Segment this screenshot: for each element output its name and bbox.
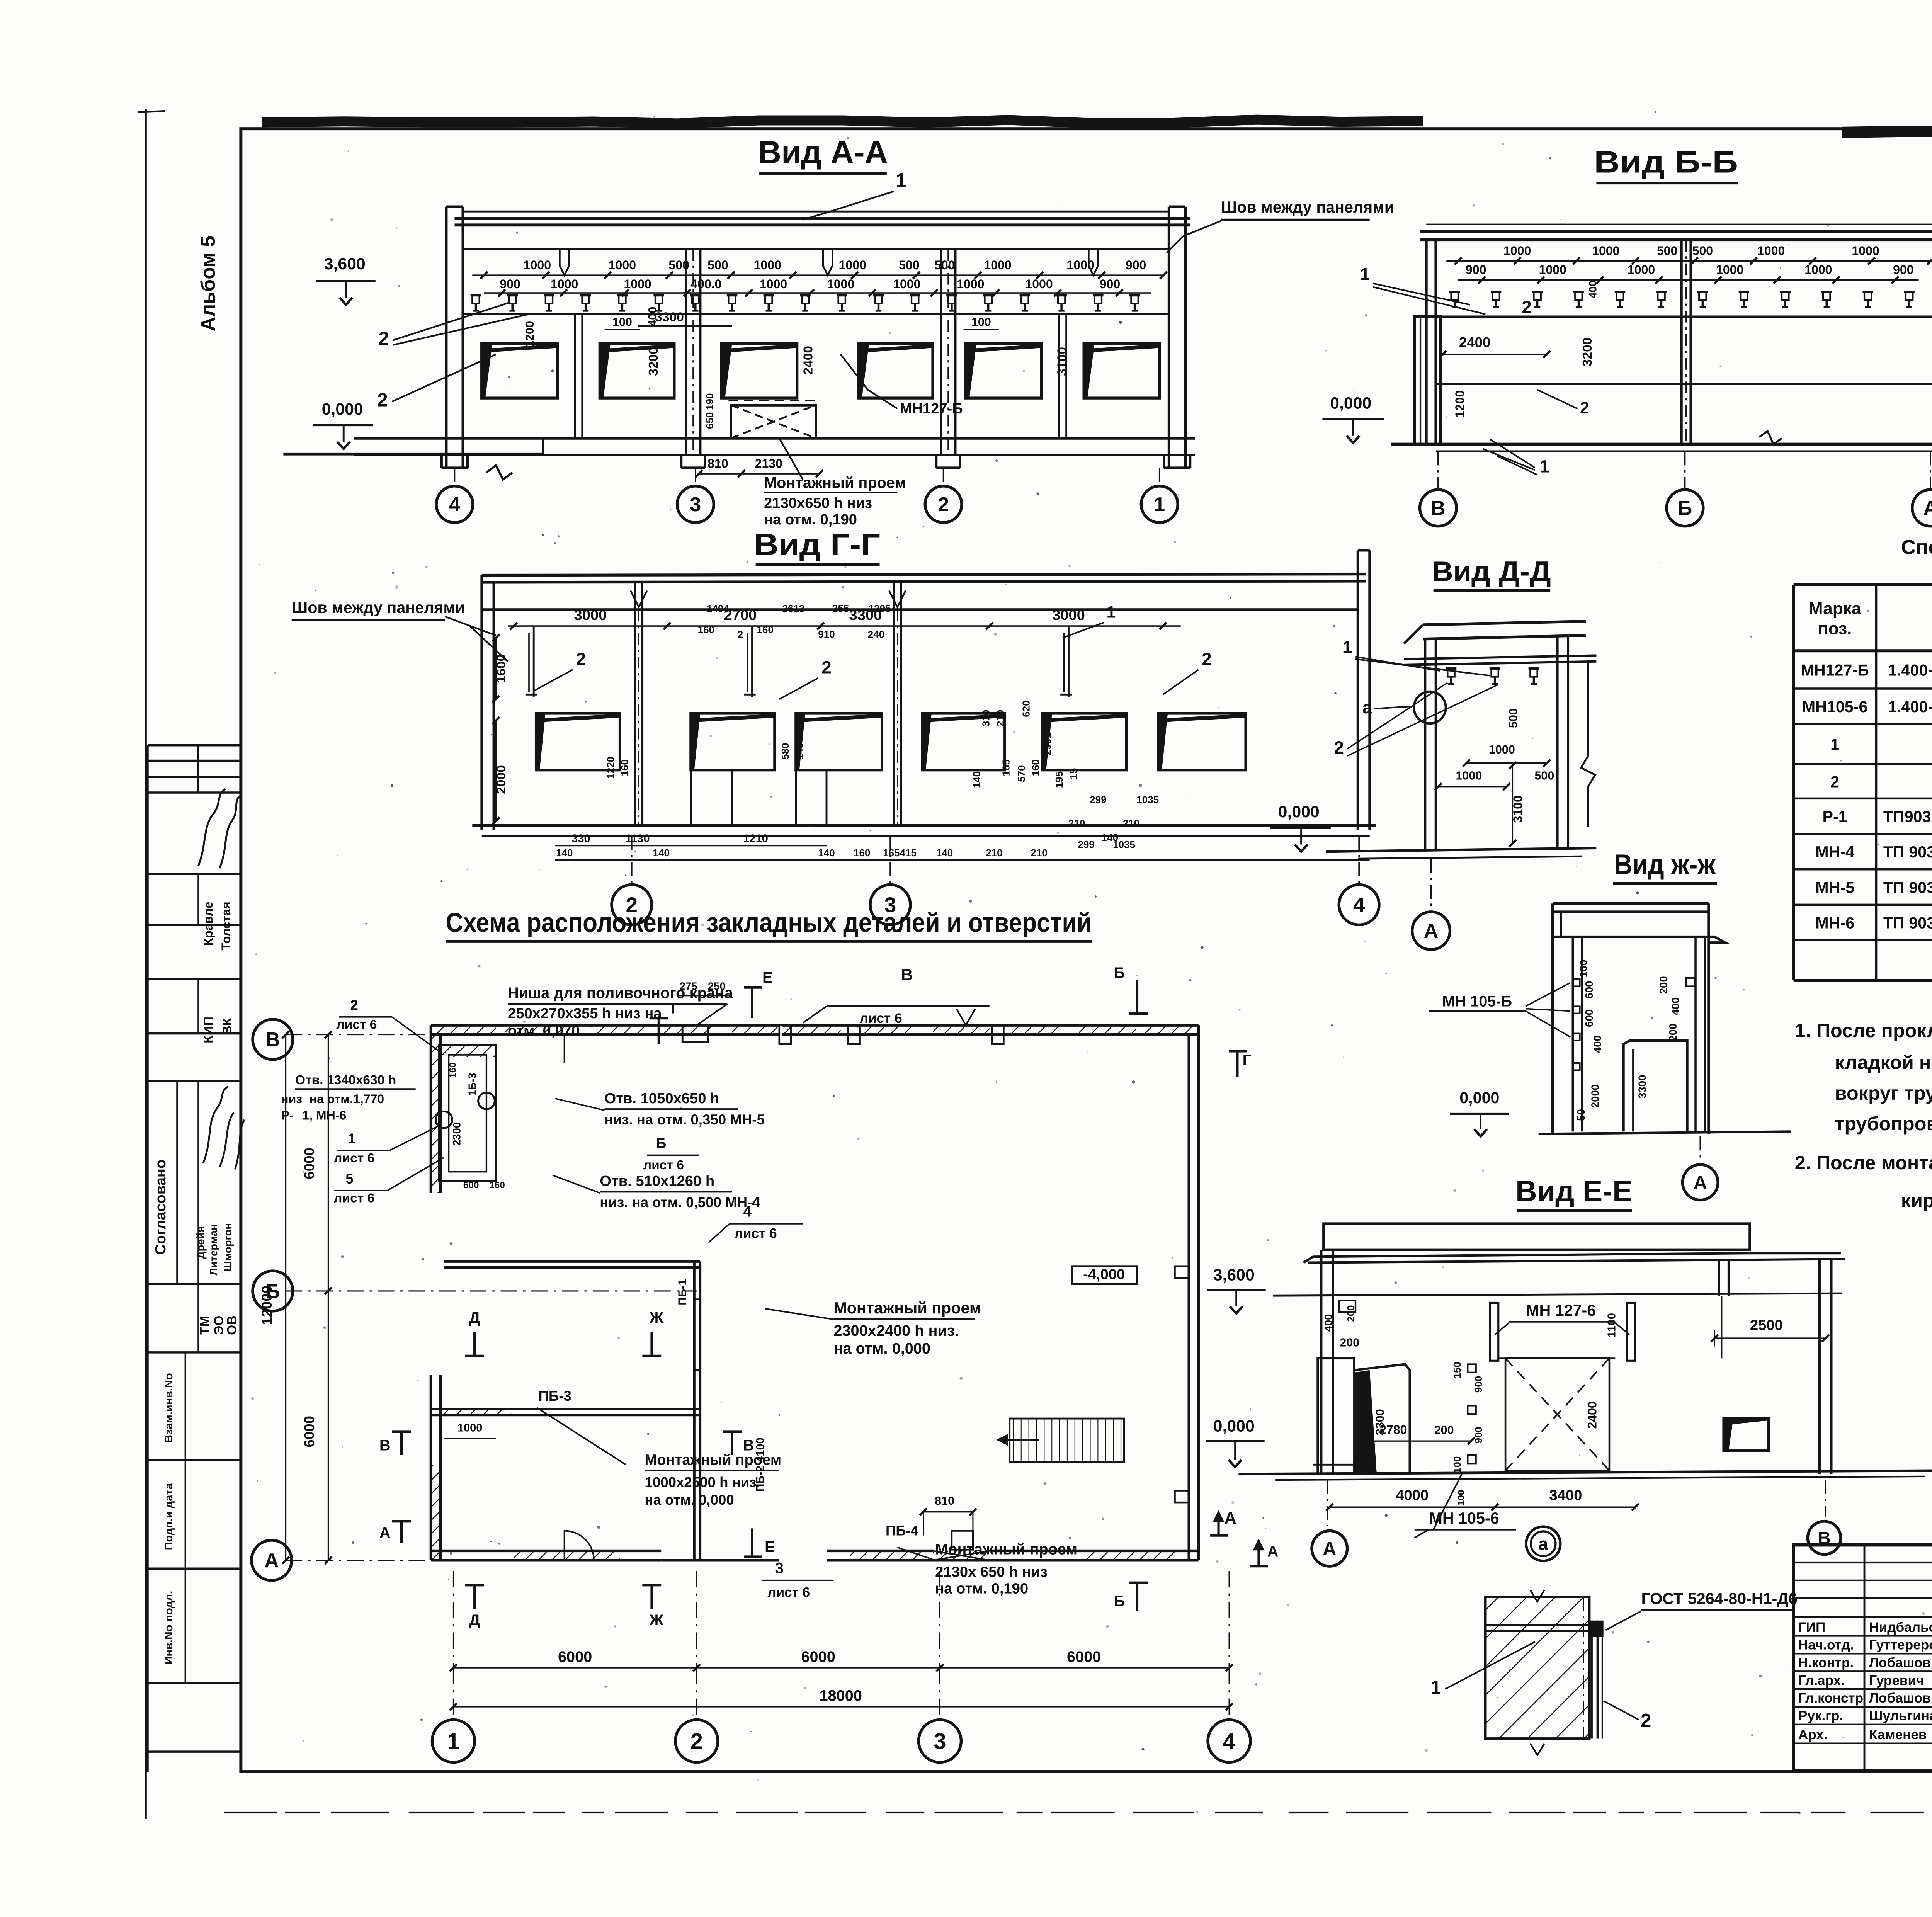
svg-text:отм. 0,070: отм. 0,070 [508, 1023, 580, 1039]
svg-text:100: 100 [1577, 960, 1589, 978]
svg-text:1000: 1000 [1852, 244, 1879, 258]
svg-text:ПБ-4: ПБ-4 [886, 1523, 919, 1539]
svg-text:195: 195 [1053, 771, 1065, 788]
svg-text:Дрейя: Дрейя [195, 1226, 207, 1259]
svg-text:1000: 1000 [760, 277, 787, 291]
svg-text:1: 1 [1830, 736, 1839, 754]
svg-text:2: 2 [379, 328, 389, 349]
svg-text:2: 2 [1580, 399, 1589, 417]
svg-text:600: 600 [463, 1180, 479, 1191]
svg-text:лист 6: лист 6 [334, 1151, 374, 1165]
svg-text:ПБ-2 4100: ПБ-2 4100 [754, 1437, 767, 1492]
svg-text:ТП 903-2-30.90: ТП 903-2-30.90 [1883, 879, 1932, 896]
svg-text:кладкой на глиняном раствор: кладкой на глиняном растворе. В пределах… [1835, 1051, 1932, 1073]
svg-text:2: 2 [738, 629, 743, 640]
svg-text:2130х 650 h низ: 2130х 650 h низ [935, 1564, 1048, 1580]
svg-text:МН127-Б: МН127-Б [1801, 661, 1869, 679]
svg-text:Р-: Р- [281, 1109, 293, 1123]
svg-text:на отм.1,770: на отм.1,770 [310, 1092, 384, 1106]
svg-text:2400: 2400 [801, 346, 815, 375]
svg-text:Отв. 510х1260 h: Отв. 510х1260 h [600, 1173, 714, 1189]
svg-text:1200: 1200 [1453, 390, 1467, 418]
svg-text:ПБ-1: ПБ-1 [676, 1279, 689, 1305]
svg-text:1404: 1404 [707, 602, 729, 614]
svg-text:Лобашов: Лобашов [1869, 1655, 1931, 1670]
svg-text:210: 210 [986, 847, 1002, 859]
svg-text:275: 275 [680, 980, 697, 992]
svg-text:900: 900 [1893, 263, 1914, 277]
svg-text:КИП: КИП [201, 1017, 216, 1043]
svg-text:лист 6: лист 6 [767, 1585, 810, 1600]
svg-text:1000: 1000 [609, 258, 636, 272]
svg-text:1000: 1000 [1489, 743, 1515, 756]
svg-text:на отм. 0,000: на отм. 0,000 [833, 1340, 930, 1357]
svg-text:1000: 1000 [1804, 263, 1832, 277]
svg-text:4: 4 [1353, 893, 1365, 917]
svg-text:Б: Б [1114, 1593, 1125, 1610]
svg-text:1000: 1000 [1592, 244, 1619, 258]
svg-text:600: 600 [1583, 1009, 1595, 1027]
svg-text:а: а [1538, 1534, 1548, 1554]
svg-text:500: 500 [899, 258, 920, 272]
svg-text:600: 600 [1583, 981, 1595, 999]
svg-text:Каменев: Каменев [1869, 1727, 1927, 1742]
svg-text:лист 6: лист 6 [735, 1226, 777, 1241]
svg-text:Спецификация элементов к марки: Спецификация элементов к маркировочным с… [1901, 536, 1932, 559]
svg-text:2000: 2000 [1589, 1084, 1601, 1108]
svg-text:Вид А-А: Вид А-А [758, 134, 888, 170]
svg-text:А: А [1267, 1543, 1279, 1560]
svg-text:1220: 1220 [605, 757, 616, 779]
svg-text:2: 2 [938, 493, 949, 516]
svg-text:50: 50 [1575, 1109, 1587, 1121]
svg-text:Б: Б [265, 1280, 280, 1303]
svg-text:900: 900 [1473, 1376, 1484, 1393]
svg-text:1, МН-6: 1, МН-6 [302, 1109, 346, 1123]
svg-text:400: 400 [1669, 997, 1681, 1015]
svg-text:3: 3 [690, 493, 701, 516]
svg-text:лист 6: лист 6 [334, 1191, 374, 1206]
svg-text:Е: Е [765, 1538, 775, 1555]
svg-text:поз.: поз. [1818, 619, 1852, 638]
svg-text:1.400-15, В.1 140-05: 1.400-15, В.1 140-05 [1888, 661, 1932, 679]
svg-text:160: 160 [489, 1180, 505, 1191]
svg-text:3000: 3000 [574, 607, 607, 624]
svg-text:Г: Г [1243, 1052, 1252, 1069]
svg-text:-4,000: -4,000 [1083, 1266, 1125, 1283]
svg-text:2. После монтажа оборудовани: 2. После монтажа оборудования монтажные … [1795, 1152, 1932, 1174]
svg-text:240: 240 [868, 629, 884, 640]
svg-text:Шморгон: Шморгон [222, 1223, 234, 1272]
svg-text:6000: 6000 [301, 1148, 317, 1179]
svg-text:Ж: Ж [649, 1309, 664, 1326]
svg-text:Вид Е-Е: Вид Е-Е [1515, 1175, 1633, 1208]
svg-text:Н.контр.: Н.контр. [1798, 1655, 1854, 1670]
svg-text:Литерман: Литерман [207, 1224, 219, 1275]
svg-text:В: В [1431, 497, 1446, 519]
svg-text:1: 1 [1154, 493, 1165, 516]
svg-text:3: 3 [934, 1729, 946, 1754]
svg-text:ПБ-3: ПБ-3 [539, 1388, 571, 1404]
svg-text:3000: 3000 [1052, 607, 1085, 624]
svg-text:1.400-15, В.1 120-05: 1.400-15, В.1 120-05 [1888, 698, 1932, 716]
svg-text:Марка: Марка [1809, 599, 1861, 618]
svg-text:Шульгина: Шульгина [1869, 1708, 1932, 1723]
svg-text:Арх.: Арх. [1798, 1727, 1828, 1742]
svg-text:МН-4: МН-4 [1815, 843, 1854, 861]
svg-text:140: 140 [556, 847, 573, 859]
svg-text:Монтажный проем: Монтажный проем [935, 1541, 1077, 1558]
svg-text:160: 160 [854, 847, 870, 859]
svg-text:Монтажный проем: Монтажный проем [764, 474, 906, 491]
svg-text:1: 1 [1107, 603, 1116, 622]
svg-text:3400: 3400 [1549, 1487, 1582, 1504]
svg-text:1. После прокладки трубопрово: 1. После прокладки трубопроводов проемы … [1795, 1019, 1932, 1041]
svg-text:3200: 3200 [1580, 337, 1595, 366]
svg-text:2130х650 h низ: 2130х650 h низ [764, 495, 872, 511]
svg-text:лист 6: лист 6 [643, 1158, 684, 1172]
svg-text:ОВ: ОВ [225, 1315, 239, 1335]
svg-text:140: 140 [936, 847, 953, 859]
svg-text:150: 150 [1451, 1362, 1463, 1378]
svg-text:500: 500 [934, 258, 955, 272]
svg-text:2: 2 [1641, 1710, 1651, 1731]
svg-text:Б: Б [1678, 497, 1692, 519]
svg-text:1: 1 [1430, 1677, 1441, 1698]
svg-text:2300: 2300 [451, 1122, 463, 1146]
svg-text:Гл.арх.: Гл.арх. [1798, 1673, 1845, 1688]
svg-text:1000: 1000 [984, 258, 1011, 272]
svg-text:310: 310 [980, 710, 992, 726]
svg-text:650: 650 [704, 412, 716, 429]
svg-text:Гл.констр: Гл.констр [1798, 1691, 1863, 1706]
svg-text:6000: 6000 [1067, 1648, 1101, 1665]
svg-text:1: 1 [1360, 264, 1370, 284]
svg-text:1: 1 [1539, 457, 1549, 476]
svg-text:400: 400 [1587, 281, 1599, 298]
svg-text:100: 100 [971, 316, 991, 329]
svg-text:6000: 6000 [301, 1416, 317, 1448]
svg-text:160: 160 [698, 624, 714, 635]
svg-text:Г: Г [671, 1000, 680, 1017]
svg-text:лист 6: лист 6 [860, 1011, 902, 1026]
svg-text:18000: 18000 [819, 1687, 862, 1704]
svg-text:1200: 1200 [523, 321, 536, 347]
svg-text:Вид Д-Д: Вид Д-Д [1432, 556, 1551, 587]
svg-text:Б: Б [1114, 964, 1125, 981]
svg-text:210: 210 [994, 710, 1006, 726]
svg-text:1000: 1000 [1628, 263, 1655, 277]
svg-text:А: А [264, 1550, 279, 1572]
svg-text:810: 810 [935, 1494, 954, 1507]
svg-text:Рук.гр.: Рук.гр. [1798, 1708, 1843, 1723]
svg-text:Толстая: Толстая [219, 902, 233, 950]
svg-text:В: В [901, 966, 913, 984]
svg-text:на отм. 0,000: на отм. 0,000 [645, 1492, 734, 1508]
svg-text:МН-5: МН-5 [1815, 879, 1854, 896]
svg-text:900: 900 [1473, 1427, 1484, 1443]
svg-text:500: 500 [1534, 769, 1554, 782]
svg-text:210: 210 [1031, 847, 1047, 859]
svg-text:1000: 1000 [624, 277, 651, 291]
svg-text:1000: 1000 [827, 277, 854, 291]
svg-text:910: 910 [818, 629, 835, 640]
svg-text:400: 400 [1322, 1314, 1334, 1332]
svg-text:900: 900 [500, 277, 520, 291]
svg-text:2: 2 [350, 997, 358, 1013]
svg-text:200: 200 [1658, 976, 1670, 994]
svg-text:1: 1 [1342, 637, 1352, 657]
svg-text:Взам.инв.No: Взам.инв.No [163, 1373, 175, 1443]
svg-text:299: 299 [1090, 794, 1106, 806]
svg-text:200: 200 [1434, 1424, 1454, 1437]
svg-text:Гуттерерский: Гуттерерский [1869, 1638, 1932, 1653]
svg-text:4: 4 [1223, 1729, 1235, 1754]
svg-text:100: 100 [612, 316, 632, 329]
svg-text:2400: 2400 [1459, 335, 1491, 350]
svg-text:3,600: 3,600 [1213, 1266, 1255, 1284]
svg-text:Монтажный проем: Монтажный проем [833, 1299, 981, 1317]
svg-text:210: 210 [1123, 818, 1139, 829]
svg-text:810: 810 [707, 456, 728, 470]
svg-text:140: 140 [794, 743, 805, 759]
svg-text:6000: 6000 [801, 1648, 835, 1665]
svg-text:165: 165 [1000, 759, 1012, 776]
svg-text:А: А [1225, 1509, 1236, 1527]
svg-text:1035: 1035 [1113, 839, 1135, 850]
svg-text:6000: 6000 [558, 1648, 592, 1665]
svg-text:140: 140 [971, 771, 982, 788]
svg-text:1000: 1000 [524, 258, 551, 272]
svg-text:2: 2 [690, 1729, 703, 1754]
svg-text:1000: 1000 [1716, 263, 1743, 277]
svg-text:3,600: 3,600 [324, 255, 366, 273]
svg-text:ТП 903-2-30.90: ТП 903-2-30.90 [1883, 843, 1932, 861]
svg-text:низ. на отм. 0,350 МН-5: низ. на отм. 0,350 МН-5 [605, 1112, 765, 1128]
svg-text:2: 2 [1202, 649, 1211, 669]
svg-text:Нач.отд.: Нач.отд. [1798, 1638, 1854, 1653]
svg-text:0,000: 0,000 [1213, 1417, 1255, 1436]
svg-text:Вид Г-Г: Вид Г-Г [754, 527, 880, 562]
svg-text:низ. на отм. 0,500 МН-4: низ. на отм. 0,500 МН-4 [600, 1194, 760, 1210]
svg-text:299: 299 [1078, 839, 1095, 850]
svg-text:1295: 1295 [869, 602, 891, 614]
svg-text:1000: 1000 [1539, 263, 1566, 277]
svg-text:0,000: 0,000 [1459, 1089, 1499, 1107]
svg-text:160: 160 [757, 624, 773, 635]
svg-text:Ниша для поливочного крана: Ниша для поливочного крана [508, 985, 733, 1002]
svg-text:2: 2 [377, 390, 388, 410]
svg-text:3100: 3100 [1055, 347, 1069, 376]
svg-text:Согласовано: Согласовано [152, 1160, 169, 1255]
svg-text:1000: 1000 [551, 277, 578, 291]
svg-text:250х270х355 h низ на: 250х270х355 h низ на [508, 1005, 662, 1022]
svg-text:2: 2 [1334, 738, 1344, 757]
svg-text:5: 5 [345, 1171, 353, 1187]
svg-text:а: а [1362, 697, 1372, 717]
svg-text:210: 210 [1068, 818, 1085, 829]
svg-text:1: 1 [447, 1729, 459, 1754]
svg-text:МН 127-6: МН 127-6 [1526, 1301, 1596, 1319]
svg-text:А: А [1424, 920, 1439, 942]
svg-text:ЭО: ЭО [212, 1316, 226, 1335]
svg-text:А: А [1923, 497, 1932, 519]
svg-text:400: 400 [1592, 1035, 1604, 1053]
svg-text:1000: 1000 [839, 258, 866, 272]
svg-text:Нидбальский: Нидбальский [1869, 1620, 1932, 1635]
svg-text:2300х2400 h низ.: 2300х2400 h низ. [833, 1322, 959, 1339]
svg-text:160: 160 [448, 1062, 458, 1078]
svg-text:330: 330 [571, 832, 590, 845]
svg-text:190: 190 [704, 393, 716, 410]
svg-text:Альбом 5: Альбом 5 [197, 236, 219, 331]
svg-text:вокруг труб заложить гильзы: вокруг труб заложить гильзы на 20 мм бол… [1835, 1082, 1932, 1104]
svg-text:1000: 1000 [1025, 277, 1053, 291]
svg-text:Ж: Ж [649, 1612, 664, 1629]
svg-text:1000: 1000 [1503, 244, 1531, 258]
svg-text:ГОСТ 5264-80-Н1-Д6: ГОСТ 5264-80-Н1-Д6 [1641, 1590, 1797, 1607]
svg-text:Вид Б-Б: Вид Б-Б [1594, 145, 1738, 179]
svg-text:4000: 4000 [1396, 1487, 1429, 1504]
svg-text:2130: 2130 [755, 456, 782, 470]
svg-text:250: 250 [708, 980, 726, 992]
svg-text:2: 2 [576, 649, 586, 669]
svg-text:на отм. 0,190: на отм. 0,190 [764, 511, 857, 528]
svg-text:2: 2 [1830, 773, 1839, 791]
svg-text:160: 160 [619, 759, 631, 776]
svg-text:15: 15 [1068, 768, 1079, 779]
svg-text:трубопроводов.: трубопроводов. [1835, 1112, 1932, 1135]
svg-text:255: 255 [832, 602, 849, 614]
svg-text:2780: 2780 [1379, 1423, 1407, 1437]
svg-text:на отм. 0,190: на отм. 0,190 [935, 1580, 1028, 1597]
svg-text:1000: 1000 [1757, 244, 1785, 258]
svg-text:1000: 1000 [957, 277, 984, 291]
svg-text:Д: Д [469, 1309, 480, 1326]
svg-text:МН127-Б: МН127-Б [900, 400, 963, 417]
svg-text:кирпичной кладкой .: кирпичной кладкой . [1901, 1189, 1932, 1211]
svg-text:500: 500 [1692, 244, 1713, 258]
svg-text:Шов между панелями: Шов между панелями [292, 599, 465, 616]
svg-text:200: 200 [1667, 1024, 1679, 1041]
svg-text:А: А [1694, 1172, 1707, 1193]
svg-text:Д: Д [469, 1612, 480, 1629]
svg-text:4: 4 [743, 1203, 752, 1220]
svg-text:200: 200 [1340, 1336, 1359, 1349]
svg-text:Инв.No подл.: Инв.No подл. [163, 1591, 175, 1665]
svg-text:1210: 1210 [743, 832, 768, 845]
svg-text:Вид ж-ж: Вид ж-ж [1614, 849, 1716, 880]
svg-text:570: 570 [1015, 765, 1027, 782]
svg-text:620: 620 [1020, 700, 1032, 717]
svg-text:ТМ: ТМ [198, 1316, 212, 1335]
svg-text:1035: 1035 [1136, 794, 1159, 806]
svg-text:МН-6: МН-6 [1815, 914, 1854, 932]
svg-text:2613: 2613 [782, 602, 805, 614]
svg-text:400: 400 [646, 307, 659, 327]
svg-text:2400: 2400 [1585, 1401, 1599, 1429]
svg-text:1: 1 [896, 170, 906, 191]
svg-text:низ: низ [281, 1092, 302, 1106]
svg-text:1100: 1100 [1605, 1313, 1618, 1337]
svg-text:лист 6: лист 6 [336, 1017, 377, 1032]
svg-text:3300: 3300 [655, 310, 684, 324]
svg-text:0,000: 0,000 [1278, 803, 1320, 821]
svg-text:А: А [1323, 1538, 1336, 1559]
svg-text:1000: 1000 [893, 277, 920, 291]
svg-text:ГИП: ГИП [1798, 1620, 1825, 1635]
svg-text:1000: 1000 [754, 258, 781, 272]
svg-text:Б: Б [656, 1135, 666, 1151]
svg-text:140: 140 [653, 847, 670, 859]
svg-text:Гуревич: Гуревич [1869, 1673, 1924, 1688]
svg-text:900: 900 [1100, 277, 1121, 291]
svg-text:3: 3 [775, 1560, 784, 1577]
svg-text:2: 2 [1522, 297, 1531, 317]
svg-text:400.0: 400.0 [690, 277, 721, 291]
svg-text:140: 140 [818, 847, 835, 859]
svg-text:ТП 903-2-30.90: ТП 903-2-30.90 [1883, 914, 1932, 932]
svg-text:Лобашов: Лобашов [1869, 1691, 1931, 1706]
svg-text:Р-1: Р-1 [1823, 808, 1847, 825]
svg-text:3200: 3200 [646, 347, 661, 376]
svg-text:А: А [379, 1524, 391, 1541]
svg-text:2: 2 [821, 657, 831, 677]
svg-text:165415: 165415 [883, 847, 917, 859]
svg-text:2500: 2500 [1750, 1317, 1783, 1334]
svg-text:1130: 1130 [626, 832, 650, 845]
svg-text:МН105-6: МН105-6 [1802, 698, 1868, 716]
svg-text:В: В [379, 1437, 391, 1454]
svg-text:500: 500 [1507, 708, 1520, 728]
svg-text:Кравле: Кравле [201, 902, 215, 946]
svg-text:1Б-3: 1Б-3 [466, 1073, 478, 1096]
svg-text:Схема расположения закладных д: Схема расположения закладных деталей и о… [446, 907, 1092, 938]
svg-text:Отв. 1050х650 h: Отв. 1050х650 h [605, 1090, 719, 1107]
svg-text:ТП903-2-30.90: ТП903-2-30.90 [1883, 808, 1932, 825]
svg-text:900: 900 [1126, 258, 1146, 272]
svg-text:МН 105-Б: МН 105-Б [1442, 993, 1512, 1010]
svg-text:900: 900 [1466, 263, 1486, 277]
svg-text:Подп.и дата: Подп.и дата [163, 1483, 175, 1550]
svg-text:3300: 3300 [1636, 1075, 1648, 1099]
svg-text:580: 580 [779, 743, 791, 759]
svg-text:В: В [265, 1029, 280, 1051]
svg-text:500: 500 [1657, 244, 1678, 258]
svg-text:100: 100 [1456, 1490, 1466, 1505]
svg-text:0,000: 0,000 [1330, 394, 1371, 413]
svg-text:100: 100 [1451, 1456, 1463, 1473]
svg-text:160: 160 [1030, 759, 1041, 776]
svg-text:Шов между панелями: Шов между панелями [1221, 198, 1395, 216]
svg-text:2901: 2901 [1042, 733, 1053, 755]
svg-text:1: 1 [348, 1131, 355, 1146]
svg-text:1000х2500 h низ.: 1000х2500 h низ. [645, 1474, 760, 1490]
svg-text:Е: Е [762, 969, 772, 986]
svg-text:0,000: 0,000 [322, 400, 363, 418]
svg-text:1000: 1000 [1456, 769, 1482, 782]
svg-text:4: 4 [449, 493, 460, 516]
svg-text:1000: 1000 [457, 1422, 483, 1434]
svg-text:500: 500 [707, 258, 728, 272]
